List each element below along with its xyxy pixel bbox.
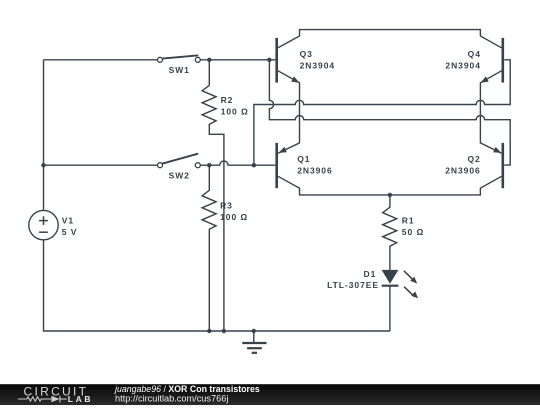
svg-text:R1: R1 [402,215,415,225]
svg-text:100 Ω: 100 Ω [221,107,249,117]
svg-text:2N3904: 2N3904 [300,60,335,70]
svg-text:R3: R3 [220,201,233,211]
svg-text:50 Ω: 50 Ω [402,227,424,237]
svg-text:LTL-307EE: LTL-307EE [327,280,379,290]
svg-text:Q2: Q2 [467,154,480,164]
svg-text:2N3906: 2N3906 [445,166,480,176]
svg-text:http://circuitlab.com/cus766j: http://circuitlab.com/cus766j [115,394,228,404]
svg-text:juangabe96 / XOR Con transisto: juangabe96 / XOR Con transistores [114,384,260,394]
svg-text:V1: V1 [62,215,74,225]
svg-text:D1: D1 [364,269,377,279]
svg-text:R2: R2 [221,95,234,105]
svg-text:SW1: SW1 [169,65,190,75]
svg-text:SW2: SW2 [169,171,190,181]
svg-text:Q3: Q3 [300,49,313,59]
svg-text:2N3906: 2N3906 [297,166,332,176]
svg-text:5 V: 5 V [62,227,78,237]
svg-text:Q1: Q1 [297,154,310,164]
svg-text:2N3904: 2N3904 [445,60,480,70]
svg-text:100 Ω: 100 Ω [220,212,248,222]
svg-text:Q4: Q4 [468,49,481,59]
svg-text:LAB: LAB [68,394,93,404]
